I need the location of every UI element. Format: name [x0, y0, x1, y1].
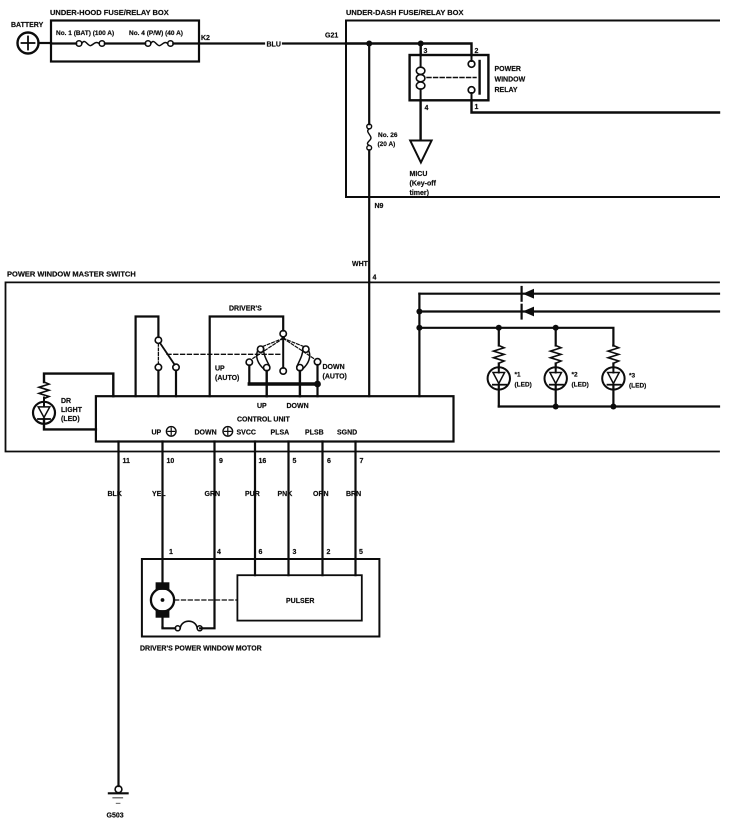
svg-text:G503: G503 — [107, 813, 124, 820]
svg-text:ORN: ORN — [313, 491, 329, 498]
svg-text:PULSER: PULSER — [286, 598, 314, 605]
svg-text:BLU: BLU — [267, 42, 281, 49]
svg-text:7: 7 — [360, 458, 364, 465]
svg-text:9: 9 — [219, 458, 223, 465]
svg-text:2: 2 — [327, 549, 331, 556]
under-hood fuse/relay box — [50, 8, 199, 62]
svg-text:BLK: BLK — [108, 491, 122, 498]
dashed link motor to pulser — [175, 599, 238, 601]
fuse No.1 (BAT) (100 A) — [56, 30, 114, 46]
svg-text:*1: *1 — [515, 372, 522, 379]
svg-text:UP: UP — [152, 430, 162, 437]
svg-text:UNDER-DASH FUSE/RELAY BOX: UNDER-DASH FUSE/RELAY BOX — [346, 8, 464, 17]
wire junction down to fuse 26 — [368, 44, 370, 125]
svg-text:K2: K2 — [201, 35, 210, 42]
wire LED feed 2 with diode — [419, 310, 719, 312]
svg-text:(LED): (LED) — [61, 416, 80, 423]
junction dots on LED feed bus — [416, 309, 422, 315]
control unit box — [96, 396, 454, 441]
resistor R3 — [608, 346, 619, 368]
svg-text:6: 6 — [327, 458, 331, 465]
svg-text:4: 4 — [373, 275, 377, 282]
wire LED rail — [419, 328, 613, 346]
svg-text:1: 1 — [475, 104, 479, 111]
junction node to relay pin 3 — [418, 41, 424, 47]
svg-text:PLSB: PLSB — [305, 430, 324, 437]
wire through under-hood box — [51, 42, 76, 44]
motor M — [151, 582, 174, 627]
svg-text:1: 1 — [169, 549, 173, 556]
svg-text:UP: UP — [257, 403, 267, 410]
driver's switch S2 — [210, 306, 347, 397]
right blade — [303, 346, 309, 352]
pin 9 wire GRN — [200, 442, 214, 629]
left blade — [257, 346, 263, 352]
svg-text:BATTERY: BATTERY — [11, 22, 44, 29]
svg-text:3: 3 — [424, 48, 428, 55]
svg-text:SVCC: SVCC — [237, 430, 256, 437]
ground G503 — [107, 786, 128, 820]
power window master switch box — [6, 270, 720, 452]
relay dashed link — [427, 77, 476, 79]
svg-text:BRN: BRN — [346, 491, 361, 498]
wire LED feed 1 with diode — [419, 293, 719, 295]
svg-text:6: 6 — [259, 549, 263, 556]
svg-text:DOWN: DOWN — [323, 364, 345, 371]
svg-text:(Key-off: (Key-off — [410, 181, 437, 188]
svg-text:PUR: PUR — [245, 491, 260, 498]
LED *1 — [488, 367, 532, 406]
svg-text:DOWN: DOWN — [287, 403, 309, 410]
wire DR LED to control unit — [44, 419, 96, 429]
wire WHT pin4 inside master switch — [368, 282, 370, 396]
pin 7 wire BRN — [354, 442, 356, 576]
svg-text:DRIVER'S POWER WINDOW MOTOR: DRIVER'S POWER WINDOW MOTOR — [140, 646, 262, 653]
wire K2 to BLU — [199, 42, 264, 44]
svg-text:LIGHT: LIGHT — [61, 407, 83, 414]
svg-text:*2: *2 — [572, 372, 579, 379]
fuse No.26 (20 A) — [367, 124, 398, 150]
svg-text:WHT: WHT — [352, 261, 369, 268]
battery — [11, 22, 44, 54]
wire LED return rail — [499, 405, 719, 407]
svg-text:No. 26: No. 26 — [378, 132, 398, 139]
svg-text:MICU: MICU — [410, 171, 428, 178]
diode D2 — [522, 305, 534, 319]
svg-text:No. 4 (P/W) (40 A): No. 4 (P/W) (40 A) — [129, 30, 183, 37]
svg-text:3: 3 — [293, 549, 297, 556]
svg-text:PLSA: PLSA — [271, 430, 290, 437]
fuse No.4 (P/W) (40 A) — [129, 30, 183, 46]
pin 5 wire PNK — [287, 442, 289, 576]
pin 10 wire YEL — [161, 442, 163, 583]
resistor R1 — [493, 328, 504, 368]
svg-text:DRIVER'S: DRIVER'S — [229, 306, 262, 313]
thermal protector connector — [163, 621, 203, 631]
svg-text:CONTROL UNIT: CONTROL UNIT — [237, 417, 290, 424]
pulser box — [237, 575, 361, 620]
svg-text:5: 5 — [293, 458, 297, 465]
svg-text:5: 5 — [359, 549, 363, 556]
junction node to fuse 26 — [366, 41, 372, 47]
driver's power window motor box — [140, 559, 379, 653]
pin 16 wire PUR — [254, 442, 256, 576]
svg-text:POWER WINDOW MASTER SWITCH: POWER WINDOW MASTER SWITCH — [7, 270, 136, 279]
svg-text:(LED): (LED) — [515, 382, 532, 389]
svg-text:GRN: GRN — [205, 491, 221, 498]
svg-text:UNDER-HOOD FUSE/RELAY BOX: UNDER-HOOD FUSE/RELAY BOX — [50, 8, 169, 17]
svg-text:4: 4 — [425, 105, 429, 112]
wire pin3 lead — [420, 44, 422, 56]
left window switch S1 — [136, 317, 180, 397]
diode D1 — [522, 287, 534, 301]
svg-text:(LED): (LED) — [629, 383, 646, 390]
svg-text:16: 16 — [259, 458, 267, 465]
svg-text:No. 1 (BAT) (100 A): No. 1 (BAT) (100 A) — [56, 30, 114, 37]
svg-text:*3: *3 — [629, 373, 636, 380]
under-dash fuse/relay box — [346, 8, 719, 197]
wire battery to under-hood box — [39, 42, 52, 44]
auto bus — [249, 382, 317, 385]
svg-text:11: 11 — [123, 458, 131, 465]
outer contacts — [246, 359, 252, 365]
power window relay U1 — [410, 48, 526, 112]
DR LIGHT (LED) — [33, 398, 83, 424]
svg-text:(AUTO): (AUTO) — [323, 374, 347, 381]
resistor R2 — [550, 328, 561, 368]
wire BLU to G21 — [283, 42, 346, 44]
wire relay pin 1 output — [472, 100, 720, 112]
svg-text:POWER: POWER — [495, 66, 521, 73]
svg-text:YEL: YEL — [152, 491, 166, 498]
vertical LED feed bus — [418, 294, 420, 397]
LED *3 — [602, 367, 646, 406]
dashed throws — [252, 338, 284, 359]
stems — [248, 365, 250, 384]
svg-text:10: 10 — [167, 458, 175, 465]
svg-text:PNK: PNK — [278, 491, 293, 498]
svg-text:(AUTO): (AUTO) — [215, 375, 239, 382]
svg-text:DOWN: DOWN — [195, 430, 217, 437]
svg-text:timer): timer) — [410, 190, 429, 197]
pin 11 wire BLK — [117, 442, 119, 787]
svg-text:UP: UP — [215, 366, 225, 373]
svg-text:G21: G21 — [325, 33, 338, 40]
relay coil — [420, 55, 422, 66]
resistor R4 — [39, 382, 49, 399]
DR LIGHT LED branch wire top — [44, 374, 113, 397]
svg-text:N9: N9 — [375, 203, 384, 210]
svg-text:DR: DR — [61, 398, 71, 405]
svg-text:WINDOW: WINDOW — [495, 77, 526, 84]
dashed mechanical link — [167, 353, 281, 355]
wire relay pin 4 to MICU — [419, 100, 421, 140]
svg-text:(LED): (LED) — [572, 382, 589, 389]
wire fuse 26 to master switch — [368, 150, 370, 282]
pin 6 wire ORN — [321, 442, 323, 576]
svg-text:RELAY: RELAY — [495, 87, 518, 94]
MICU arrow — [410, 141, 437, 198]
svg-text:SGND: SGND — [337, 430, 357, 437]
centre contact arm — [282, 338, 284, 368]
svg-text:2: 2 — [475, 48, 479, 55]
relay contact pins — [471, 55, 473, 61]
svg-text:4: 4 — [217, 549, 221, 556]
svg-text:(20 A): (20 A) — [378, 141, 396, 148]
relay armature bar — [478, 61, 480, 94]
LED *2 — [545, 367, 589, 406]
wire main feed to relay pin 2 — [346, 44, 472, 56]
